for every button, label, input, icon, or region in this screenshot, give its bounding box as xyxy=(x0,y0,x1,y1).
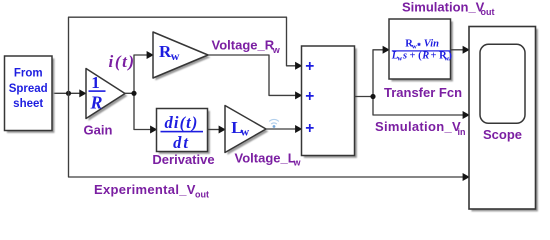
svg-text:w: w xyxy=(272,45,281,55)
block Transfer Fcn xyxy=(389,19,453,81)
gain block Lw xyxy=(225,106,268,155)
svg-text:Scope: Scope xyxy=(483,127,522,142)
svg-text:s: s xyxy=(402,51,407,62)
svg-text:w: w xyxy=(171,49,180,63)
label Voltage_Lw xyxy=(235,150,302,167)
wire: Rw output to Sum input 2 xyxy=(208,55,302,99)
svg-text:Voltage_L: Voltage_L xyxy=(235,150,296,165)
svg-text:+: + xyxy=(305,88,314,105)
svg-text:Gain: Gain xyxy=(84,122,113,137)
node A (junction at From output) xyxy=(66,91,71,96)
svg-text:Simulation_V: Simulation_V xyxy=(402,0,485,15)
svg-text:+ (: + ( xyxy=(410,51,423,62)
svg-text:Derivative: Derivative xyxy=(152,152,214,167)
wire: From block output to Gain input xyxy=(52,89,87,97)
svg-text:out: out xyxy=(481,7,495,17)
svg-text:Vin: Vin xyxy=(424,39,439,50)
label Experimental_Vout xyxy=(94,182,209,199)
svg-text:out: out xyxy=(195,190,209,200)
svg-text:in: in xyxy=(458,127,466,137)
block Scope xyxy=(469,27,538,212)
gain block Rw xyxy=(153,32,210,80)
wire: bottom Experimental_V_out from node A to Scope input 3 xyxy=(69,93,470,181)
gain block 1/R xyxy=(86,69,127,121)
signal logging badge (wifi icon) xyxy=(269,119,279,127)
wire: top feedback from node A to Sum input 1 xyxy=(69,17,303,93)
svg-text:Voltage_R: Voltage_R xyxy=(212,38,275,53)
node B (junction at Gain output) xyxy=(125,51,157,134)
svg-text:+: + xyxy=(305,58,314,75)
svg-text:sheet: sheet xyxy=(13,98,43,110)
label Simulation_Vin xyxy=(375,119,466,137)
svg-text:From: From xyxy=(14,68,43,80)
svg-text:Transfer Fcn: Transfer Fcn xyxy=(384,85,462,100)
svg-text:Spread: Spread xyxy=(9,83,48,95)
wire: Transfer Fcn output to Scope input 1 xyxy=(451,46,470,54)
svg-text:): ) xyxy=(448,51,452,62)
block Derivative xyxy=(157,109,210,154)
svg-text:dt: dt xyxy=(173,133,190,152)
wire: Sum output with junction to Transfer Fcn and Scope input 2 xyxy=(355,46,470,119)
svg-text:i(t): i(t) xyxy=(109,52,136,71)
svg-text:w: w xyxy=(241,125,250,139)
svg-text:1: 1 xyxy=(91,73,100,92)
wire: Lw output to Sum input 3 xyxy=(266,125,302,133)
svg-text:R: R xyxy=(89,93,102,113)
wire: Derivative output to Lw input xyxy=(208,126,226,134)
block: From Spread sheet xyxy=(5,56,55,133)
svg-text:w: w xyxy=(293,158,302,168)
svg-text:Simulation_V: Simulation_V xyxy=(375,119,461,134)
sum block xyxy=(302,46,357,158)
label Simulation_Vout xyxy=(402,0,495,17)
svg-text:di(t): di(t) xyxy=(165,113,199,132)
label Voltage_Rw xyxy=(212,38,281,55)
svg-text:+: + xyxy=(305,120,314,137)
svg-text:R: R xyxy=(421,51,429,62)
svg-text:Experimental_V: Experimental_V xyxy=(94,182,196,197)
